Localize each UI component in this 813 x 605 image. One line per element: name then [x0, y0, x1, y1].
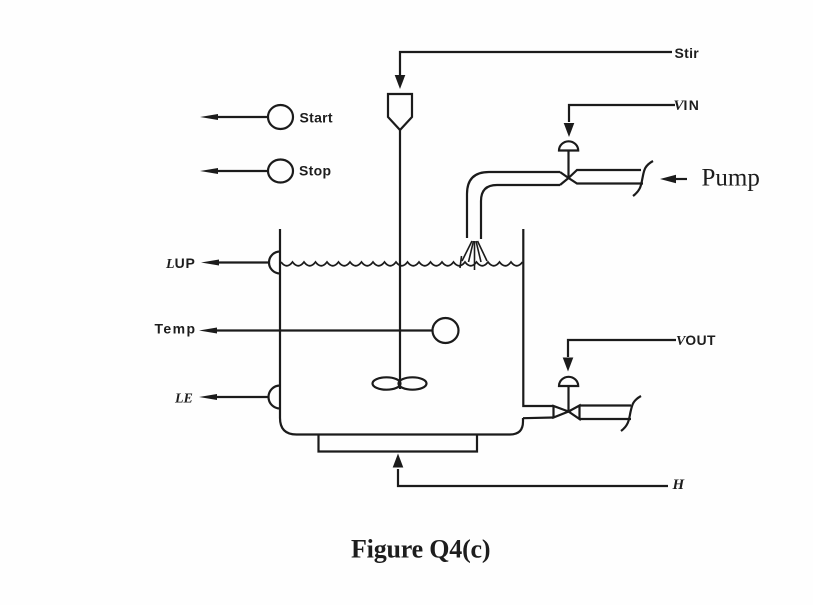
svg-text:Temp: Temp [155, 321, 197, 337]
svg-text:VIN: VIN [674, 97, 701, 114]
svg-text:LUP: LUP [165, 255, 196, 272]
svg-text:H: H [672, 477, 686, 493]
Start pushbutton [200, 105, 293, 129]
Temp sensor bulb [199, 318, 459, 343]
svg-text:LE: LE [174, 391, 193, 406]
stirrer propeller [373, 377, 427, 389]
outlet pipe lower lip [523, 416, 554, 419]
wire H heater line [393, 454, 668, 487]
wire VIN signal line [564, 105, 675, 137]
pump flow arrow [660, 175, 687, 184]
outlet pipe break symbol [621, 396, 641, 431]
svg-text:VOUT: VOUT [676, 333, 716, 349]
wire stir signal line [395, 52, 672, 89]
svg-text:Stop: Stop [299, 163, 331, 179]
inlet pipe from pump to valve [467, 172, 560, 239]
LUP level sensor [201, 252, 280, 274]
svg-text:Stir: Stir [675, 45, 700, 61]
valve V-out actuator [559, 377, 578, 412]
valve V-in actuator [559, 141, 578, 178]
Stop pushbutton [200, 160, 293, 183]
stirrer motor [388, 94, 412, 130]
outlet pipe after valve [580, 406, 632, 420]
svg-text:Figure Q4(c): Figure Q4(c) [351, 535, 490, 564]
tank bottom [297, 418, 524, 435]
inlet pipe break symbol [633, 161, 653, 196]
LE level sensor [199, 386, 280, 409]
heater plate [319, 435, 478, 452]
water surface wavy line [281, 262, 523, 266]
stirrer shaft wire [399, 130, 401, 389]
wire VOUT signal line [563, 340, 676, 372]
valve V-in body [560, 170, 643, 185]
svg-text:Start: Start [300, 110, 333, 126]
svg-text:Pump: Pump [702, 165, 760, 192]
spray from inlet pipe [460, 241, 487, 270]
tank left wall [280, 229, 297, 435]
tank right wall [523, 229, 553, 406]
valve V-out body [554, 406, 580, 420]
